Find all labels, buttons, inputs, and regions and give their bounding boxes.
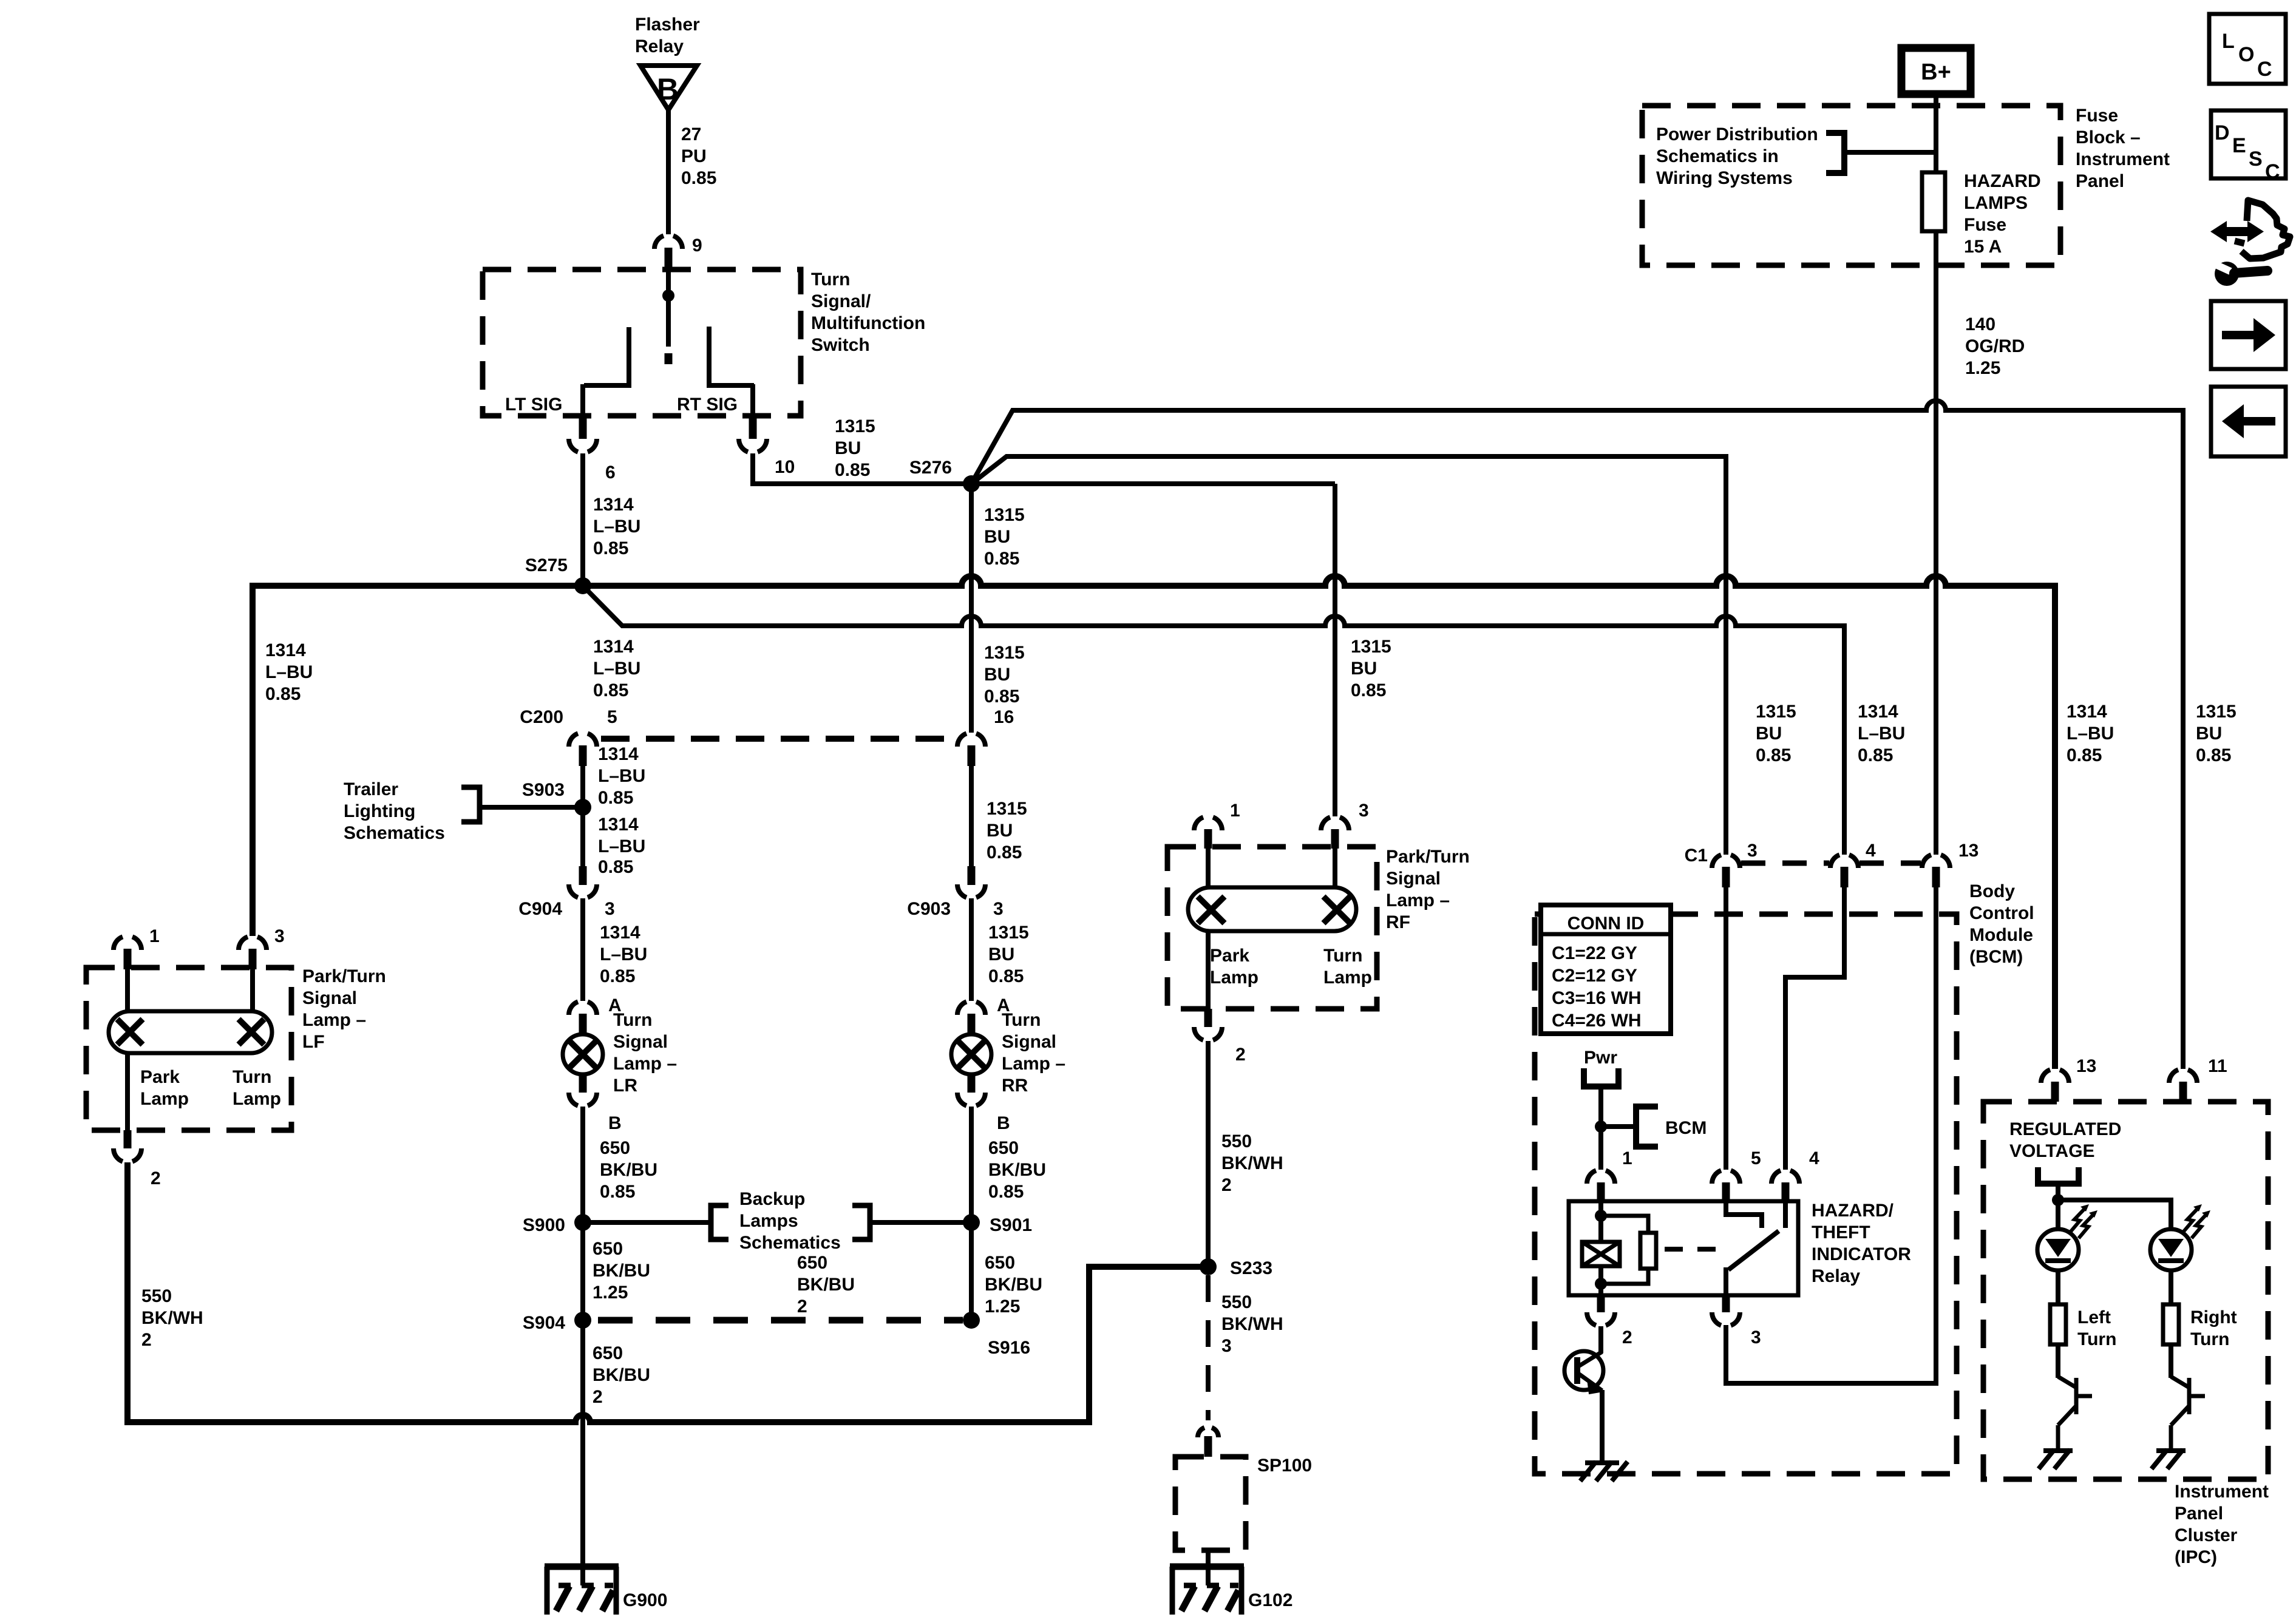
svg-text:4: 4 [1809,1148,1819,1168]
svg-text:1315: 1315 [987,799,1027,819]
node S275 [574,577,591,594]
wire resistor to transistor [2169,1344,2173,1378]
relay switch contacts [1726,1201,1785,1228]
svg-text:B: B [997,1113,1010,1133]
connector pin 10 terminal [739,416,767,452]
relay actuation dashed link [1665,1247,1729,1252]
svg-text:2: 2 [151,1168,161,1188]
svg-text:Schematics: Schematics [344,823,445,843]
park/turn signal lamp LF dashed box [86,968,291,1130]
connector C1 pin 4 [1830,855,1858,887]
svg-text:1314: 1314 [1858,702,1898,722]
svg-text:0.85: 0.85 [984,549,1019,569]
svg-text:550: 550 [141,1286,172,1306]
svg-text:BK/WH: BK/WH [1221,1314,1283,1334]
backup lamps schematics label [739,1189,841,1253]
svg-text:(IPC): (IPC) [2175,1547,2217,1567]
fuse block label [2076,106,2170,191]
wire SP100 to G102 [1206,1550,1211,1567]
backup lamps left bracket [711,1205,729,1239]
wire lamp B to S901 [969,1107,974,1222]
svg-text:1315: 1315 [1756,702,1796,722]
wire right bracket to S901 [870,1220,971,1225]
turn signal / multifunction switch dashed box [483,269,801,416]
svg-text:BU: BU [1351,659,1377,679]
BCM internal node [1595,1120,1607,1133]
svg-text:BU: BU [984,527,1010,547]
node S903 [574,799,591,816]
svg-text:3: 3 [993,899,1004,919]
svg-text:L–BU: L–BU [593,517,640,537]
connector pin 1 of LF lamp [114,937,141,969]
svg-text:S903: S903 [522,780,565,800]
svg-text:S901: S901 [990,1215,1032,1235]
connector pin B of LR lamp [569,1074,597,1106]
svg-text:3: 3 [1221,1336,1232,1356]
connector C1 pin 3 [1712,855,1740,887]
svg-text:HAZARD: HAZARD [1964,171,2041,191]
svg-text:C: C [2257,58,2272,81]
lamp label Turn Signal Lamp - RR [1002,1010,1065,1096]
svg-text:Multifunction: Multifunction [811,313,925,333]
wires from pins into LF lamp [127,969,253,1011]
svg-text:Panel: Panel [2175,1503,2223,1524]
wire C904 to lamp LR pin A [580,898,585,1001]
trailer lighting bracket [461,787,480,822]
CONN ID table [1541,905,1671,1034]
svg-text:1314: 1314 [598,815,639,835]
svg-text:G900: G900 [623,1590,667,1610]
turn signal lamp RR symbol [951,1034,991,1074]
svg-text:D: D [2215,121,2230,144]
svg-text:BK/BU: BK/BU [797,1275,855,1295]
splice pack SP100 dashed box [1175,1457,1246,1550]
wire S276 down to C200 pin 16 [969,484,974,733]
svg-text:C2=12 GY: C2=12 GY [1552,966,1637,986]
svg-text:L–BU: L–BU [593,659,640,679]
svg-text:550: 550 [1221,1131,1252,1151]
svg-text:C903: C903 [907,899,951,919]
left turn resistor [2050,1304,2066,1344]
svg-text:Lamp: Lamp [140,1089,189,1109]
svg-text:0.85: 0.85 [988,966,1024,986]
wire S904 down to ground G900 [580,1320,585,1567]
svg-text:BK/BU: BK/BU [985,1275,1042,1295]
DESC icon box [2211,110,2286,183]
park/turn signal lamp RF dashed box [1167,847,1377,1009]
svg-text:Block –: Block – [2076,127,2141,147]
wire branch to right LED [2058,1200,2171,1229]
connector pin 1 of RF lamp [1194,817,1222,849]
switch label [811,269,925,355]
svg-text:Cluster: Cluster [2175,1525,2238,1545]
svg-text:Lamp: Lamp [1323,968,1372,988]
svg-text:S904: S904 [523,1313,565,1333]
svg-text:BK/WH: BK/WH [141,1308,203,1328]
dashed wire S233 to SP100 [1206,1275,1211,1420]
main bus wire from left corner through S275 to IPC pin 13 [253,576,2055,1069]
svg-text:0.85: 0.85 [1756,745,1791,765]
svg-text:1315: 1315 [1351,637,1391,657]
svg-text:Signal: Signal [613,1032,668,1052]
svg-text:Instrument: Instrument [2175,1482,2269,1502]
svg-text:C1=22 GY: C1=22 GY [1552,943,1637,963]
svg-text:3: 3 [605,899,615,919]
connector C200 pin 16 [957,733,985,766]
switch wiper dash [665,353,673,364]
svg-text:Instrument: Instrument [2076,149,2170,169]
svg-text:1314: 1314 [2067,702,2107,722]
svg-text:0.85: 0.85 [1858,745,1893,765]
svg-text:BCM: BCM [1665,1118,1707,1138]
svg-text:650: 650 [600,1138,630,1158]
wire C1 pin 13 down inside BCM [1726,887,1936,1383]
svg-text:2: 2 [1235,1045,1246,1065]
connector C1 pin 13 [1922,855,1950,887]
svg-text:C: C [2265,160,2280,183]
svg-text:S900: S900 [523,1215,565,1235]
IPC label [2175,1482,2269,1567]
svg-text:Module: Module [1969,925,2033,945]
svg-text:Lamp: Lamp [1210,968,1258,988]
svg-text:Trailer: Trailer [344,779,398,799]
svg-text:13: 13 [1958,841,1978,861]
power distribution dashed box [1642,106,2060,265]
svg-text:Lighting: Lighting [344,801,415,821]
wire S276 branch down to RF lamp pin 3 [1333,484,1337,816]
svg-text:0.85: 0.85 [1351,680,1386,700]
svg-text:Schematics in: Schematics in [1656,146,1779,166]
svg-text:27: 27 [681,124,701,144]
svg-text:4: 4 [1866,841,1876,861]
svg-text:PU: PU [681,146,707,166]
wire from S276 to BCM C1 pin 3 [971,456,1726,855]
transistor Q inside BCM [1564,1351,1603,1394]
wire S900 to left bracket [583,1220,711,1225]
svg-text:0.85: 0.85 [2067,745,2102,765]
svg-text:0.85: 0.85 [593,680,628,700]
svg-text:BK/WH: BK/WH [1221,1153,1283,1173]
wire S900 to S904 [580,1222,585,1320]
connector pin 3 of LF lamp [239,937,267,969]
wire 1314 from pin 6 down to S275 [580,453,585,586]
svg-text:THEFT: THEFT [1812,1222,1870,1242]
connector C903 pin 3 [957,866,985,898]
svg-text:1: 1 [1230,801,1240,821]
connector pin 6 terminal [569,416,597,452]
node S904 [574,1312,591,1329]
svg-text:Body: Body [1969,881,2015,901]
lamp LF box label [302,966,386,1052]
wire S901 to S916 [969,1222,974,1320]
RF lamp stadium symbol [1188,887,1356,931]
connector pin A of RR lamp [957,1002,985,1034]
svg-text:Pwr: Pwr [1584,1048,1617,1068]
svg-text:Relay: Relay [1812,1266,1860,1286]
svg-text:Lamp –: Lamp – [1002,1054,1065,1074]
lamp RF box label [1386,847,1470,932]
flasher relay triangle B [640,66,697,110]
svg-text:Signal/: Signal/ [811,291,871,311]
ground G900 symbol [545,1567,619,1615]
switch common node wire and junction [666,290,671,347]
svg-text:Signal: Signal [1386,869,1441,889]
relay parallel resistor [1601,1216,1656,1284]
svg-text:Power Distribution: Power Distribution [1656,124,1818,144]
LF lamp stadium symbol [109,1011,272,1053]
svg-text:L–BU: L–BU [600,944,647,964]
svg-text:Wiring Systems: Wiring Systems [1656,168,1793,188]
svg-text:Turn: Turn [2190,1329,2229,1349]
switch RT contact arm [709,327,754,416]
svg-text:Turn: Turn [2077,1329,2116,1349]
svg-text:1315: 1315 [2196,702,2237,722]
svg-text:BU: BU [984,665,1010,685]
relay coil symbol [1582,1242,1620,1266]
svg-text:650: 650 [593,1343,623,1363]
right turn LED [2150,1204,2210,1270]
LOC icon box [2209,14,2286,84]
svg-text:Relay: Relay [635,36,684,56]
node S900 [574,1214,591,1231]
IPC right transistor [2171,1377,2205,1452]
svg-text:BU: BU [2196,724,2222,744]
svg-text:1315: 1315 [984,643,1025,663]
svg-text:15 A: 15 A [1964,237,2002,257]
svg-text:0.85: 0.85 [600,966,635,986]
BCM bracket [1636,1107,1658,1147]
wire regulated voltage to left LED [2056,1184,2060,1229]
svg-text:LT SIG: LT SIG [505,395,562,415]
fuse HAZARD LAMPS 15A [1922,172,1945,231]
svg-text:0.85: 0.85 [598,857,633,877]
IPC left transistor [2058,1377,2092,1452]
svg-text:13: 13 [2076,1056,2096,1076]
svg-text:Turn: Turn [233,1067,271,1087]
svg-text:SP100: SP100 [1257,1456,1312,1476]
svg-text:BK/BU: BK/BU [593,1365,650,1385]
svg-text:RR: RR [1002,1076,1028,1096]
relay label [1812,1201,1911,1286]
BCM label [1969,881,2034,967]
svg-text:Turn: Turn [613,1010,652,1030]
svg-text:B: B [608,1113,622,1133]
wire resistor to transistor [2056,1344,2060,1378]
svg-text:1315: 1315 [984,505,1025,525]
svg-text:3: 3 [1359,801,1369,821]
wire LED to resistor [2056,1270,2060,1304]
svg-text:BU: BU [1756,724,1782,744]
IPC pin 13 connector [2041,1070,2069,1102]
ground G102 symbol [1170,1567,1244,1615]
svg-text:BU: BU [835,438,861,458]
svg-text:2: 2 [797,1297,807,1317]
svg-text:Control: Control [1969,903,2034,923]
svg-text:L–BU: L–BU [1858,724,1905,744]
trailer lighting schematics label [344,779,445,843]
svg-text:C904: C904 [518,899,562,919]
svg-text:Park/Turn: Park/Turn [302,966,386,986]
right turn resistor [2163,1304,2179,1344]
svg-text:1314: 1314 [600,923,640,943]
svg-text:1314: 1314 [593,495,634,515]
node S916 [963,1312,980,1329]
relay switch blade [1726,1231,1779,1295]
svg-text:0.85: 0.85 [988,1182,1024,1202]
connector C200 pin 5 [569,733,597,766]
svg-text:0.85: 0.85 [598,788,633,808]
svg-text:VOLTAGE: VOLTAGE [2009,1141,2095,1161]
svg-text:16: 16 [994,707,1014,727]
svg-text:650: 650 [985,1253,1015,1273]
svg-text:Schematics: Schematics [739,1233,841,1253]
svg-text:S233: S233 [1230,1258,1272,1278]
battery feed B+ box [1901,48,1971,94]
svg-text:10: 10 [775,457,795,477]
svg-text:C200: C200 [520,707,563,727]
svg-text:650: 650 [797,1253,827,1273]
svg-text:L–BU: L–BU [265,662,313,682]
power distribution bracket [1826,133,1844,173]
svg-text:2: 2 [141,1330,152,1350]
diagnostic wrench icon [2210,200,2290,286]
svg-text:3: 3 [274,926,285,946]
IPC pin 11 connector [2169,1070,2197,1102]
svg-text:Lamps: Lamps [739,1211,798,1231]
node S276 [963,475,980,492]
svg-text:1315: 1315 [835,416,875,436]
IPC dashed box [1983,1102,2268,1479]
svg-text:S: S [2249,147,2263,171]
svg-text:1: 1 [1622,1148,1632,1168]
regulated voltage source symbol [2038,1167,2079,1184]
wire node to BCM bracket [1601,1124,1636,1129]
wire C200-16 to C903 [969,766,974,868]
svg-text:BK/BU: BK/BU [988,1160,1046,1180]
lamp label Turn Signal Lamp - LR [613,1010,677,1096]
svg-text:Lamp –: Lamp – [1386,890,1450,910]
switch LT contact arm [583,327,629,416]
svg-text:(BCM): (BCM) [1969,947,2023,967]
svg-text:0.85: 0.85 [600,1182,635,1202]
connector at SP100 [1198,1428,1218,1457]
svg-text:S276: S276 [909,458,952,478]
svg-text:Fuse: Fuse [1964,215,2006,235]
wire 27 PU from flasher relay [666,110,671,234]
svg-text:CONN ID: CONN ID [1567,914,1645,934]
relay pin 4 connector [1771,1170,1799,1201]
dashed connector line C1 [1741,861,1921,866]
relay pin 5 connector [1712,1170,1740,1201]
svg-text:Fuse: Fuse [2076,106,2118,126]
wire bracket to S903 [480,805,583,810]
svg-text:0.85: 0.85 [984,686,1019,707]
svg-text:Panel: Panel [2076,171,2124,191]
svg-text:Park: Park [1210,946,1249,966]
regulated voltage label [2009,1119,2121,1161]
connector C904 pin 3 [569,866,597,898]
hazard/theft indicator relay box [1569,1201,1798,1295]
wire Pwr to relay pin 1 [1598,1086,1603,1170]
svg-text:1314: 1314 [265,640,306,660]
svg-text:Turn: Turn [1002,1010,1041,1030]
svg-text:0.85: 0.85 [265,684,301,704]
backup lamps right bracket [852,1205,870,1239]
relay pin 1 connector [1587,1170,1615,1201]
svg-text:650: 650 [593,1239,623,1259]
svg-text:B+: B+ [1921,59,1951,85]
wire transistor to ground [1601,1326,1602,1463]
svg-text:6: 6 [605,463,616,483]
power distribution label [1656,124,1818,188]
wire from S276 up-right to top bus [971,401,2183,1069]
wire B+ down to fuse [1934,94,1938,172]
svg-text:Park: Park [140,1067,180,1087]
svg-text:1.25: 1.25 [593,1283,628,1303]
wire right LED to resistor [2169,1270,2173,1304]
svg-text:2: 2 [1622,1327,1632,1347]
svg-text:INDICATOR: INDICATOR [1812,1244,1911,1264]
BCM dashed box [1535,914,1957,1474]
svg-text:650: 650 [988,1138,1019,1158]
svg-text:S275: S275 [525,555,568,575]
BCM internal ground [1580,1462,1628,1481]
svg-text:3: 3 [1751,1327,1761,1347]
svg-text:0.85: 0.85 [2196,745,2231,765]
svg-text:HAZARD/: HAZARD/ [1812,1201,1894,1221]
svg-text:2: 2 [593,1387,603,1407]
connector pin 3 of RF lamp [1321,817,1349,849]
svg-text:Right: Right [2190,1307,2237,1327]
Pwr symbol [1584,1068,1618,1086]
svg-text:0.85: 0.85 [835,460,870,480]
svg-text:140: 140 [1965,314,1995,334]
wires from pins into RF lamp [1208,849,1335,887]
svg-text:BU: BU [988,944,1014,964]
wire park lamp to pin 2 [1206,931,1211,1009]
svg-text:Turn: Turn [811,269,850,290]
fuse label [1964,171,2041,257]
svg-text:L–BU: L–BU [598,766,645,786]
svg-text:RT SIG: RT SIG [677,395,738,415]
wire lamp B to S900 [580,1107,585,1222]
node S233 [1200,1258,1217,1275]
svg-text:Turn: Turn [1323,946,1362,966]
svg-text:L: L [2222,30,2235,53]
IPC left ground [2039,1449,2073,1469]
connector pin A of LR lamp [569,1002,597,1034]
wire from S275 down-right to lower bus toward BCM C1 pin 4 [583,586,1844,855]
svg-text:Left: Left [2077,1307,2111,1327]
svg-text:Park/Turn: Park/Turn [1386,847,1470,867]
svg-text:OG/RD: OG/RD [1965,336,2025,356]
left arrow icon box [2211,387,2286,456]
svg-text:11: 11 [2208,1056,2227,1076]
svg-text:Lamp: Lamp [233,1089,281,1109]
svg-text:0.85: 0.85 [681,168,716,188]
svg-text:C3=16 WH: C3=16 WH [1552,988,1642,1008]
wire park lamp to pin 2 [125,1053,130,1130]
wire 1315 from pin 10 to S276 [753,453,1335,484]
svg-text:550: 550 [1221,1292,1252,1312]
svg-text:O: O [2238,43,2254,66]
wire bracket to B+ feed [1844,150,1936,155]
wire 550 BK/WH from LF pin 2 along bottom to S233 [127,1162,1208,1422]
svg-text:1.25: 1.25 [1965,358,2000,378]
svg-text:5: 5 [1751,1148,1761,1168]
wire C200-5 to S903 to C904 [580,766,585,868]
wire C1 pin 3 to relay pin 5 [1724,887,1728,1170]
